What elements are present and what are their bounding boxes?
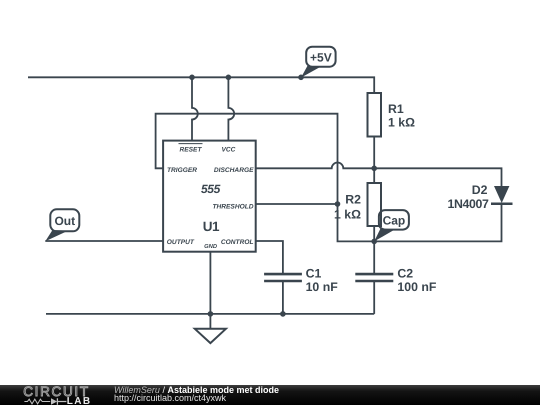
footer attribution bar — [0, 385, 540, 405]
junction dot GND pin on rail — [208, 311, 214, 317]
wire RESET pin with hop — [192, 77, 198, 140]
svg-text:C2: C2 — [397, 267, 413, 281]
junction dot R1 bottom node — [371, 166, 377, 172]
junction dot VCC rail — [226, 75, 232, 81]
pin label RESET (with overline) — [179, 144, 203, 154]
svg-text:555: 555 — [201, 182, 221, 196]
svg-text:GND: GND — [204, 243, 218, 250]
resistor R1 — [368, 93, 382, 168]
svg-text:Cap: Cap — [383, 214, 406, 228]
svg-text:U1: U1 — [203, 219, 220, 234]
svg-text:OUTPUT: OUTPUT — [167, 239, 195, 246]
wire THRESHOLD pin — [256, 203, 338, 205]
svg-text:Out: Out — [54, 214, 75, 228]
junction dot +5V flag tip — [298, 75, 304, 81]
svg-text:THRESHOLD: THRESHOLD — [212, 203, 253, 210]
net flag Out — [45, 209, 79, 241]
svg-text:1 kΩ: 1 kΩ — [388, 116, 415, 130]
wire VCC pin with hop — [228, 77, 234, 140]
svg-text:10 nF: 10 nF — [306, 280, 339, 294]
wire ground rail — [46, 313, 374, 315]
svg-text:TRIGGER: TRIGGER — [167, 167, 197, 174]
wire OUTPUT pin — [45, 240, 163, 242]
svg-text:1 kΩ: 1 kΩ — [334, 207, 361, 221]
capacitor C1 — [264, 274, 302, 314]
svg-text:C1: C1 — [306, 267, 322, 281]
wire C2 top stub — [373, 241, 375, 274]
svg-text:D2: D2 — [472, 183, 488, 197]
wire top +5V rail — [28, 77, 374, 93]
CircuitLab logo — [0, 385, 100, 405]
svg-text:100 nF: 100 nF — [397, 280, 436, 294]
net flag Cap — [374, 210, 409, 241]
power flag +5V — [301, 47, 336, 78]
svg-text:VCC: VCC — [221, 147, 235, 154]
svg-text:DISCHARGE: DISCHARGE — [214, 167, 254, 174]
resistor R2 — [368, 168, 382, 241]
wire Cap node to D2 cathode — [374, 204, 501, 242]
svg-text:RESET: RESET — [180, 147, 203, 154]
svg-text:R1: R1 — [388, 102, 404, 116]
wire GND pin — [209, 252, 211, 314]
svg-text:1N4007: 1N4007 — [448, 197, 489, 211]
junction dot THRESHOLD node — [335, 201, 341, 207]
junction dot C1 bottom on rail — [280, 311, 286, 317]
wire TRIGGER / THRESHOLD net — [156, 114, 375, 242]
ground symbol — [195, 329, 226, 343]
svg-text:+5V: +5V — [310, 50, 332, 64]
svg-text:CONTROL: CONTROL — [221, 239, 254, 246]
capacitor C2 — [355, 274, 393, 314]
wire DISCHARGE to R1 bottom and D2 anode, hop over trigger wire — [256, 163, 502, 186]
wire CONTROL pin to C1 — [256, 241, 283, 274]
svg-text:LAB: LAB — [67, 396, 92, 405]
IC U1 555 body — [163, 141, 256, 252]
junction dot Cap node — [371, 239, 377, 245]
svg-text:R2: R2 — [345, 193, 361, 207]
wire ground stub — [209, 314, 211, 329]
junction dot RESET rail — [189, 75, 195, 81]
footer title text — [114, 386, 279, 402]
diode D2 — [491, 186, 513, 204]
